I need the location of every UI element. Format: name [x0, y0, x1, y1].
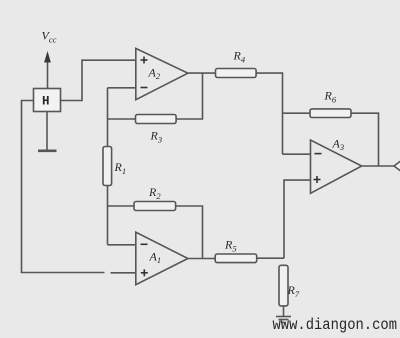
sensor H — [34, 89, 61, 112]
wire R2 right down to A1 output — [176, 206, 203, 259]
ground (below R7) — [276, 317, 291, 323]
op-amp A3 — [311, 140, 362, 193]
wire A2 output — [188, 72, 216, 74]
Vcc arrow — [44, 51, 51, 89]
wire R7 bottom — [283, 306, 285, 316]
wire R6 left — [283, 112, 311, 114]
wire R5 right to R7 junction — [257, 257, 284, 259]
wire H right to A2 plus — [61, 60, 137, 100]
wire R4 right down to A3 minus — [256, 73, 282, 154]
wire R3 left — [108, 118, 136, 120]
svg-text:H: H — [42, 95, 50, 109]
wire rail lower (R1 to A1 minus) — [107, 186, 109, 245]
wire rail upper (A2 minus to R1) — [107, 88, 109, 147]
A3 plus mark — [314, 176, 321, 183]
wire R3 right to A2 output — [176, 73, 202, 119]
resistor R7 — [279, 265, 288, 306]
op-amp input polarity marks — [141, 57, 322, 277]
ground (below H) — [38, 150, 57, 153]
wire A3 minus — [283, 153, 311, 155]
wire H left to A1 plus — [22, 101, 105, 273]
wire (after hop gap) — [111, 272, 137, 274]
resistor R3 — [136, 115, 177, 124]
wire A2 minus — [108, 87, 136, 89]
resistor R6 — [310, 109, 351, 118]
A3 minus mark — [315, 153, 322, 155]
resistor R2 — [134, 202, 176, 211]
op-amp A1 — [136, 232, 188, 285]
wire A1 output — [188, 258, 215, 260]
wire H bottom to ground — [46, 112, 48, 151]
wire A3 output — [362, 165, 394, 167]
op-amp A2 — [136, 48, 188, 99]
A1 plus mark — [141, 269, 148, 276]
A2 plus mark — [141, 57, 148, 64]
svg-text:www.diangon.com: www.diangon.com — [273, 316, 398, 334]
resistor R4 — [216, 69, 257, 78]
A1 minus mark — [141, 243, 148, 245]
wire A3 plus to R5/R7 junction — [284, 180, 311, 258]
resistor R1 — [103, 147, 112, 186]
resistor R5 — [215, 254, 257, 263]
output terminal — [394, 161, 400, 171]
wire R2 left — [108, 205, 135, 207]
wire R6 right down to A3 output — [351, 113, 379, 166]
A2 minus mark — [141, 87, 148, 89]
wire A1 minus — [108, 244, 136, 246]
